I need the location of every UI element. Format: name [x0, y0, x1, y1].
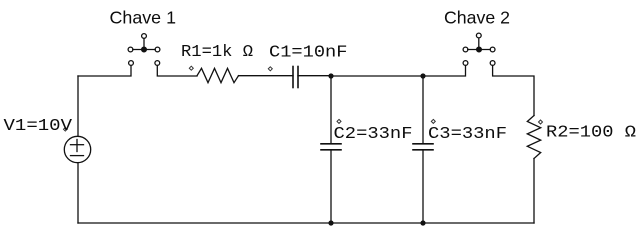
svg-text:C1=10nF: C1=10nF: [269, 43, 348, 62]
svg-text:C3=33nF: C3=33nF: [428, 124, 507, 143]
svg-text:Chave 2: Chave 2: [444, 8, 510, 28]
svg-text:R2=100 Ω: R2=100 Ω: [546, 123, 636, 142]
svg-text:Chave 1: Chave 1: [110, 8, 177, 28]
svg-text:R1=1k Ω: R1=1k Ω: [181, 42, 253, 61]
svg-text:V1=10V: V1=10V: [4, 116, 73, 135]
svg-text:C2=33nF: C2=33nF: [334, 124, 413, 143]
